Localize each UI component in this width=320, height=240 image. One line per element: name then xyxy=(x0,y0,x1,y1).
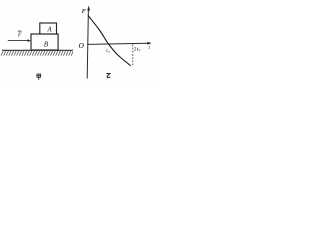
svg-text:F: F xyxy=(17,32,22,38)
graph line xyxy=(88,15,131,66)
block A xyxy=(40,23,57,34)
svg-text:O: O xyxy=(79,42,85,50)
svg-text:B: B xyxy=(44,39,49,48)
svg-text:0: 0 xyxy=(139,48,141,52)
t axis xyxy=(87,43,148,44)
dashed vertical at 2t0 xyxy=(132,44,134,65)
background xyxy=(0,0,155,86)
ground xyxy=(2,49,73,51)
F axis xyxy=(87,9,88,79)
ground hatching xyxy=(1,51,73,56)
caption jia (甲) drawn xyxy=(37,74,41,80)
force arrow F xyxy=(8,40,29,42)
caption yi (乙) drawn xyxy=(106,74,110,78)
block B xyxy=(31,34,58,50)
svg-text:A: A xyxy=(47,27,53,34)
